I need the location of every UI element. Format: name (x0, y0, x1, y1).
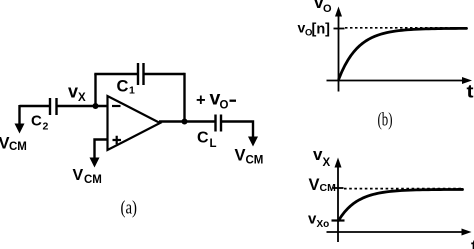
svg-text:CM: CM (84, 174, 102, 186)
graph x: dashed line at V_CM (344, 188, 463, 190)
svg-text:O: O (220, 100, 229, 112)
wire: left V_CM stub (corner down) (18, 105, 20, 125)
arrow to V_CM (bottom) (90, 158, 100, 168)
svg-text:t: t (467, 82, 474, 102)
svg-text:CM: CM (9, 141, 27, 153)
wire: CL to right V_CM corner (221, 122, 253, 138)
graph x: settling curve (339, 189, 463, 220)
svg-text:(b): (b) (378, 110, 393, 131)
svg-text:L: L (210, 138, 217, 150)
wire: non-inverting input branch (95, 140, 108, 159)
svg-text:2: 2 (43, 121, 49, 133)
svg-text:(a): (a) (121, 198, 138, 219)
node VX (junction dot) (93, 103, 99, 109)
wire: feedback top horizontal left of C1 (94, 73, 138, 75)
graph x: tick at V_CM (333, 187, 344, 189)
wire: C2 to op-amp inverting input (57, 105, 109, 107)
graph b: x-axis (327, 80, 464, 82)
svg-text:v: v (313, 145, 323, 164)
svg-text:C: C (31, 113, 42, 130)
svg-text:O: O (323, 3, 332, 15)
graph b: tick at vO[n] (334, 28, 345, 30)
svg-text:C: C (197, 130, 209, 147)
svg-text:CM: CM (320, 182, 337, 194)
svg-text:CM: CM (246, 155, 264, 167)
graph x: y-axis (337, 165, 339, 242)
svg-text:1: 1 (129, 85, 135, 97)
op-amp U1 (108, 96, 161, 150)
svg-text:C: C (117, 78, 129, 96)
wire: feedback top horizontal right of C1 (144, 73, 185, 75)
capacitor C1 (138, 63, 144, 85)
svg-text:[n]: [n] (312, 22, 331, 38)
arrow to V_CM (right) (248, 137, 258, 147)
op-amp plus sign (113, 136, 122, 144)
node output (junction dot) (182, 119, 188, 125)
svg-text:X: X (78, 92, 86, 104)
wire: feedback left vertical (94, 74, 96, 106)
svg-text:V: V (309, 176, 320, 194)
graph b: y-axis (338, 14, 340, 92)
graph x: x-axis (327, 231, 463, 233)
svg-text:+: + (196, 92, 206, 110)
svg-text:V: V (73, 167, 84, 184)
wire: left input horizontal segment (20, 105, 51, 107)
wire: op-amp output (159, 120, 216, 122)
capacitor CL (216, 115, 222, 132)
svg-text:v: v (68, 82, 78, 102)
graph x: tick at vXo (332, 219, 345, 221)
op-amp minus sign (112, 105, 121, 107)
graph b: settling curve (339, 28, 467, 79)
graph b: dashed line at vO[n] (345, 27, 467, 29)
svg-text:V: V (235, 147, 246, 165)
svg-text:Xo: Xo (317, 219, 330, 230)
wire: feedback right vertical down to output (183, 73, 185, 122)
svg-text:X: X (323, 157, 331, 169)
arrow to V_CM (left) (15, 124, 25, 134)
capacitor C2 (50, 98, 57, 115)
